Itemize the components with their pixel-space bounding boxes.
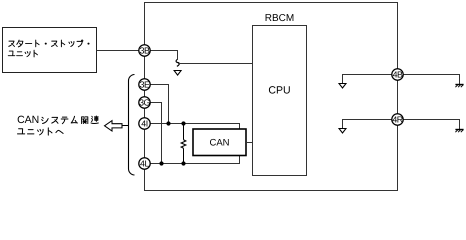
svg-text:4I: 4I	[141, 119, 147, 129]
svg-text:3E: 3E	[140, 80, 150, 90]
svg-text:CAN: CAN	[17, 114, 39, 126]
svg-text:4B: 4B	[393, 70, 403, 80]
svg-text:CPU: CPU	[268, 85, 290, 97]
svg-text:RBCM: RBCM	[265, 13, 294, 24]
svg-text:3B: 3B	[140, 46, 150, 56]
svg-text:4L: 4L	[140, 159, 149, 169]
svg-text:4R: 4R	[392, 115, 402, 125]
svg-text:3G: 3G	[139, 98, 150, 108]
svg-text:CAN: CAN	[209, 138, 229, 149]
